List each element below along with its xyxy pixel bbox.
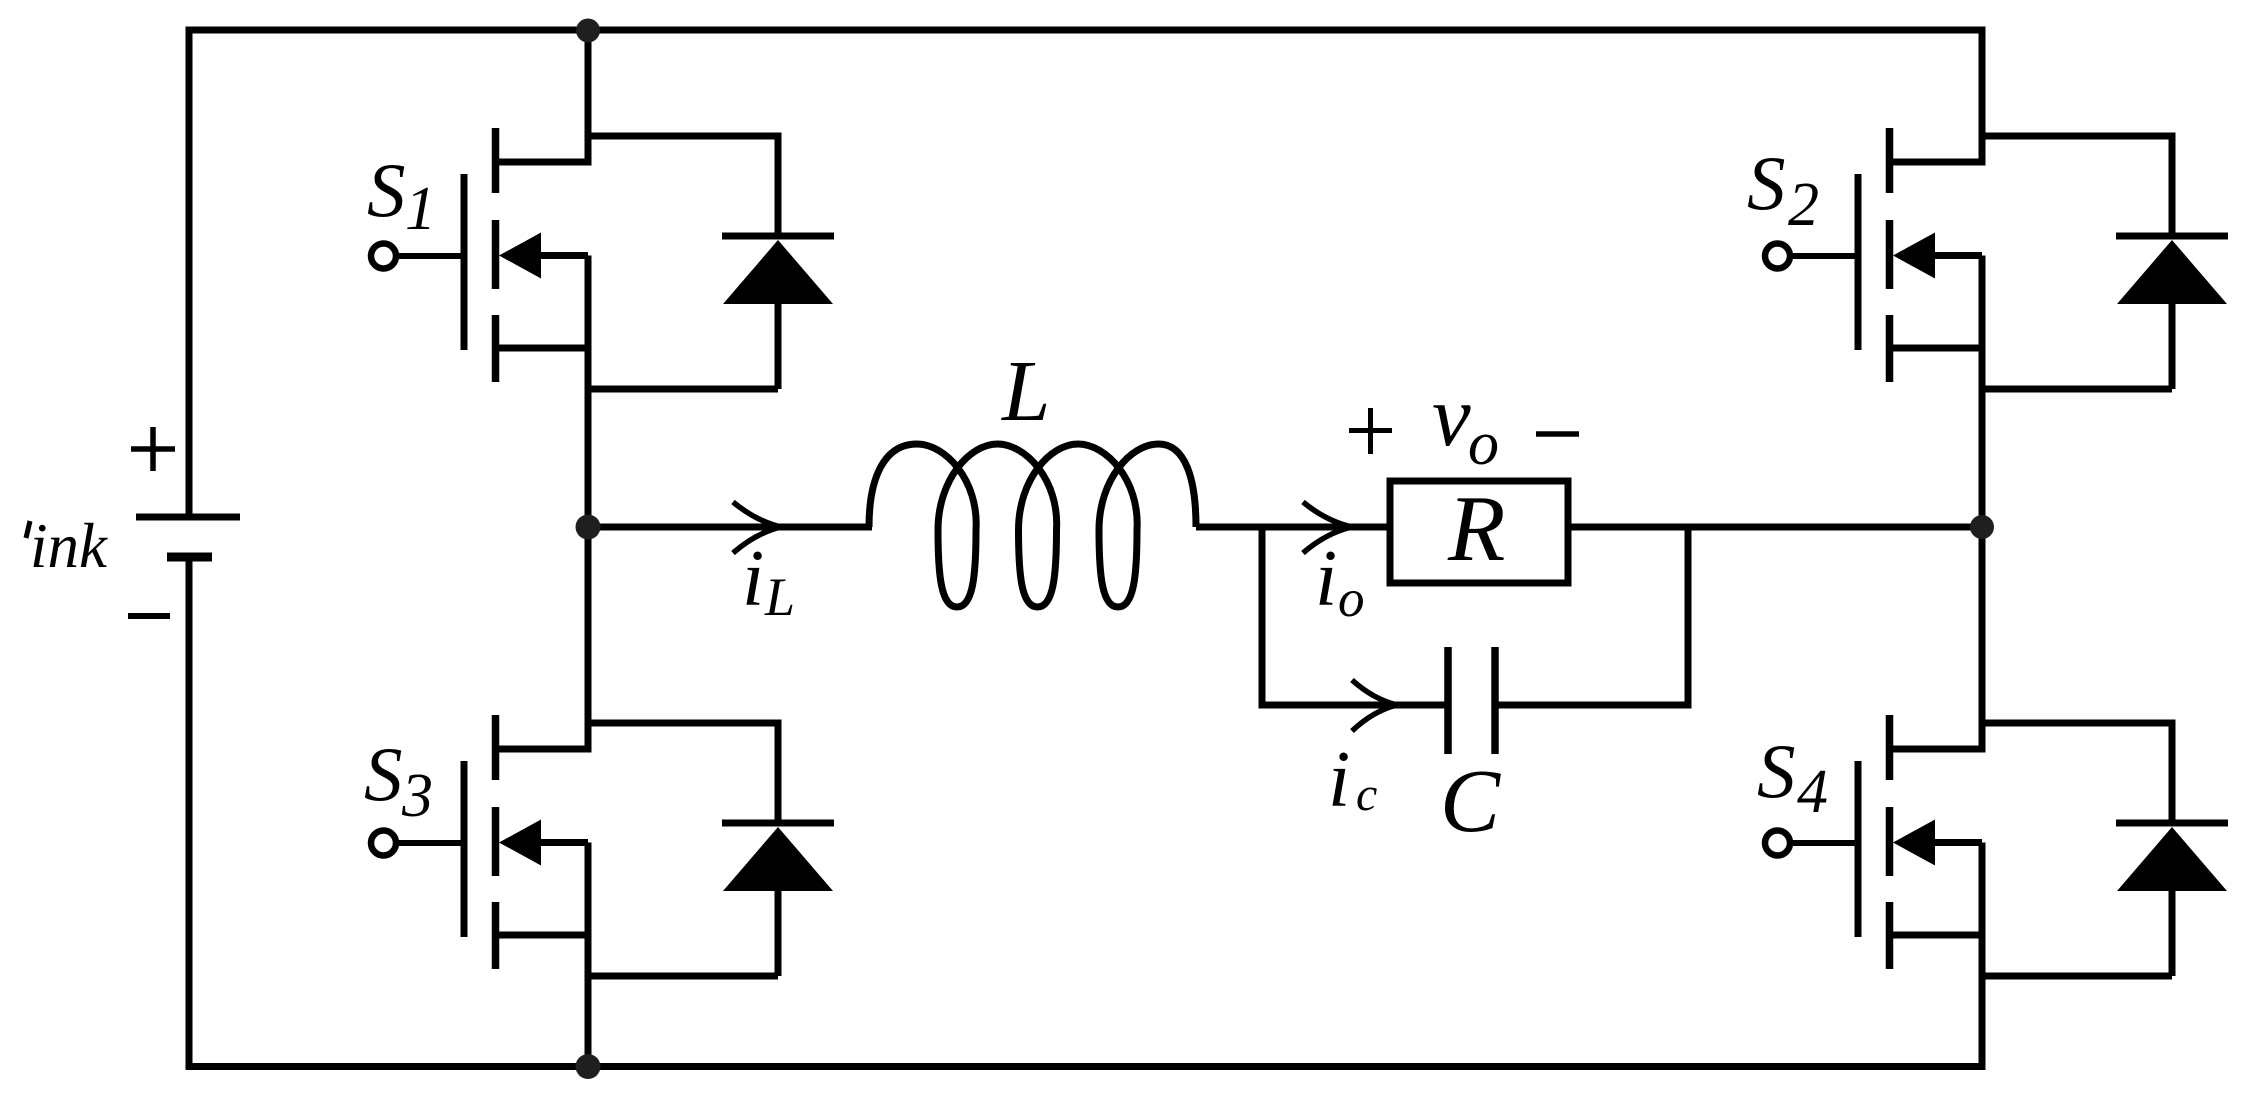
label - (vo) — [1536, 431, 1579, 437]
svg-text:i: i — [1315, 535, 1337, 623]
svg-text:o: o — [1338, 570, 1365, 628]
label Vdclink (clipped "ink") — [30, 511, 108, 581]
svg-text:i: i — [742, 535, 764, 623]
S3 gate terminal circle — [371, 831, 396, 856]
svg-text:4: 4 — [1797, 758, 1828, 826]
S2 gate terminal circle — [1765, 244, 1790, 269]
label + (vo) — [1349, 408, 1392, 454]
D3 cathode bar — [722, 820, 834, 827]
S1 gate bar — [461, 174, 468, 350]
S1 body arrow — [499, 233, 541, 279]
svg-text:S: S — [364, 731, 403, 817]
S4 gate terminal circle — [1765, 831, 1790, 856]
diode D1 (antiparallel, S1) — [588, 133, 834, 390]
transistor S1 (MOSFET, top-left) — [371, 30, 588, 527]
wire: S3 source vertical to bottom rail — [585, 843, 592, 1071]
wire: D4 bottom branch — [1982, 973, 2172, 980]
S2 body arrow — [1893, 233, 1935, 279]
node: top rail junction — [576, 19, 600, 43]
svg-text:1: 1 — [405, 175, 436, 243]
arrow io — [1303, 502, 1352, 553]
S1 source lead — [492, 345, 588, 352]
S3 body arrow — [499, 820, 541, 866]
svg-text:S: S — [1757, 728, 1796, 814]
node A: left bridge midpoint — [576, 515, 601, 540]
svg-text:L: L — [1000, 342, 1050, 439]
S2 drain lead — [1886, 159, 1982, 166]
resistor R — [1390, 481, 1568, 583]
wire: top DC rail — [186, 27, 1986, 34]
wire: D3 bottom branch — [588, 973, 778, 980]
arrow iL — [733, 502, 781, 553]
wire: D4 top branch — [1982, 720, 2172, 727]
inductor L — [869, 444, 1196, 607]
wire: D2 top branch — [1982, 133, 2172, 140]
svg-text:3: 3 — [401, 762, 433, 830]
D2 cathode bar — [2116, 233, 2228, 240]
D4 triangle — [2117, 827, 2227, 891]
wire: midpoint A to inductor — [588, 524, 872, 531]
wire: D3 top branch — [588, 720, 778, 727]
D1 triangle — [723, 240, 833, 304]
wire: S1 source vertical to midpoint — [585, 256, 592, 528]
wire: S2 drain vertical from top rail corner — [1979, 30, 1986, 166]
S3 channel bar segments — [492, 715, 500, 780]
wire: left rail upper (to battery +) — [186, 27, 193, 518]
S3 drain lead — [492, 746, 588, 753]
S2 channel bar segments — [1886, 128, 1894, 193]
S4 body arrow — [1893, 820, 1935, 866]
wire: capacitor branch left — [1262, 702, 1448, 709]
wire: D1 bottom branch — [588, 386, 778, 393]
svg-text:i: i — [1328, 736, 1350, 824]
wire: capacitor branch right — [1495, 702, 1688, 709]
capacitor C right plate — [1491, 647, 1499, 754]
D1 cathode bar — [722, 233, 834, 240]
S4 drain lead — [1886, 746, 1982, 753]
wire: load branch left vertical — [1259, 527, 1266, 709]
battery Vdclink short plate (-) — [167, 553, 212, 562]
wire: S1 drain vertical from top rail — [585, 30, 592, 166]
arrow ic — [1352, 680, 1397, 731]
S3 source lead — [492, 932, 588, 939]
wire: load branch right vertical — [1685, 527, 1692, 709]
svg-text:L: L — [764, 567, 795, 627]
S2 source lead — [1886, 345, 1982, 352]
wire: D1 top branch — [588, 133, 778, 140]
wire: S4 drain vertical from midpoint — [1979, 527, 1986, 753]
S2 gate lead — [1790, 253, 1855, 259]
S1 channel bar segments — [492, 128, 500, 193]
diode D4 (antiparallel, S4) — [1982, 720, 2228, 977]
battery Vdclink long plate (+) — [136, 514, 240, 521]
D3 triangle — [723, 827, 833, 891]
svg-text:ink: ink — [30, 511, 108, 581]
D2 triangle — [2117, 240, 2227, 304]
wire: S4 source vertical to bottom rail corner — [1979, 843, 1986, 1071]
node B: right bridge midpoint — [1970, 515, 1994, 539]
svg-text:v: v — [1432, 367, 1471, 464]
svg-text:o: o — [1468, 410, 1499, 478]
svg-text:2: 2 — [1788, 171, 1819, 239]
wire: S3 drain vertical from midpoint — [585, 527, 592, 753]
S1 gate terminal circle — [371, 244, 396, 269]
S4 gate lead — [1790, 840, 1855, 846]
capacitor C left plate — [1444, 647, 1452, 754]
wire: inductor to right midpoint B — [1196, 524, 1982, 531]
svg-text:S: S — [1747, 140, 1786, 226]
label - (battery) — [128, 613, 170, 619]
D4 cathode bar — [2116, 820, 2228, 827]
transistor S3 (MOSFET, bottom-left) — [371, 527, 588, 1070]
svg-text:c: c — [1356, 768, 1377, 821]
svg-text:S: S — [367, 147, 406, 233]
wire: S2 source vertical to midpoint — [1979, 256, 1986, 528]
transistor S2 (MOSFET, top-right) — [1765, 30, 1982, 527]
wire: bottom DC rail — [186, 1063, 1986, 1070]
node: bottom rail junction — [576, 1054, 601, 1079]
S1 drain lead — [492, 159, 588, 166]
svg-text:R: R — [1447, 477, 1505, 581]
wire: D2 bottom branch — [1982, 386, 2172, 393]
transistor S4 (MOSFET, bottom-right) — [1765, 527, 1982, 1070]
S4 channel bar segments — [1886, 715, 1894, 780]
S3 gate lead — [396, 840, 461, 846]
S2 gate bar — [1855, 174, 1862, 350]
S4 source lead — [1886, 932, 1982, 939]
wire: left rail lower (from battery -) — [186, 557, 193, 1070]
S1 gate lead — [396, 253, 461, 259]
S3 gate bar — [461, 761, 468, 937]
diode D3 (antiparallel, S3) — [588, 720, 834, 977]
svg-text:C: C — [1440, 752, 1501, 851]
label + (battery) — [131, 427, 175, 471]
diode D2 (antiparallel, S2) — [1982, 133, 2228, 390]
S4 gate bar — [1855, 761, 1862, 937]
